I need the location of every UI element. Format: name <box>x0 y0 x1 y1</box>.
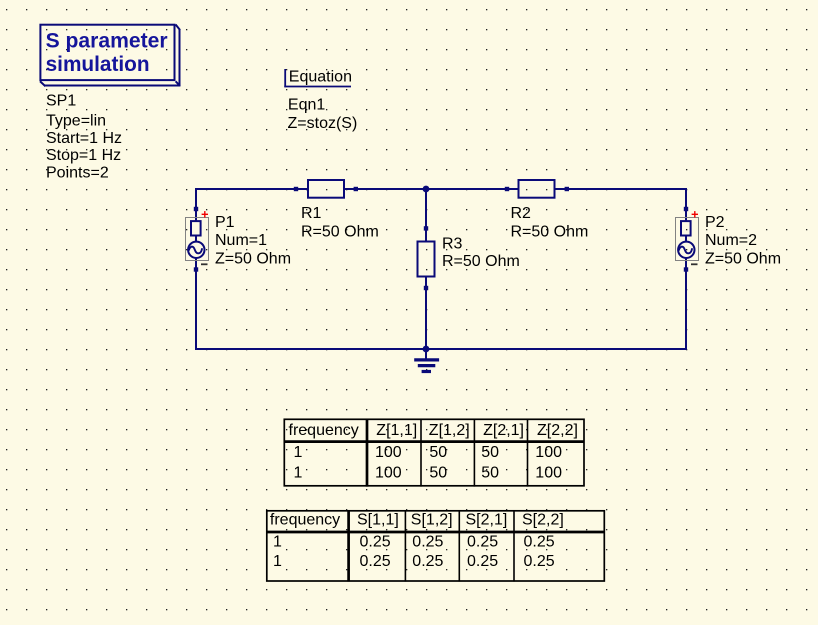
svg-text:0.25: 0.25 <box>467 553 498 570</box>
svg-text:0.25: 0.25 <box>360 553 391 570</box>
svg-text:R=50 Ohm: R=50 Ohm <box>301 223 379 240</box>
svg-text:Z=stoz(S): Z=stoz(S) <box>288 115 358 132</box>
svg-text:Num=1: Num=1 <box>215 232 267 249</box>
svg-text:0.25: 0.25 <box>524 553 555 570</box>
svg-text:Z[1,1]: Z[1,1] <box>376 422 417 439</box>
svg-text:P2: P2 <box>705 214 725 231</box>
svg-text:50: 50 <box>481 465 499 482</box>
svg-text:S[1,1]: S[1,1] <box>357 511 399 528</box>
svg-text:Points=2: Points=2 <box>46 164 109 181</box>
svg-text:0.25: 0.25 <box>467 533 498 550</box>
svg-text:R3: R3 <box>442 235 463 252</box>
svg-text:Z[2,1]: Z[2,1] <box>483 422 524 439</box>
svg-text:simulation: simulation <box>46 53 150 76</box>
svg-text:Eqn1: Eqn1 <box>288 97 325 114</box>
svg-text:100: 100 <box>375 444 402 461</box>
svg-text:1: 1 <box>294 444 303 461</box>
svg-text:frequency: frequency <box>289 422 359 439</box>
svg-text:50: 50 <box>429 444 447 461</box>
svg-text:Z=50 Ohm: Z=50 Ohm <box>215 250 291 267</box>
svg-text:Z[1,2]: Z[1,2] <box>429 422 470 439</box>
svg-text:Z=50 Ohm: Z=50 Ohm <box>705 250 781 267</box>
svg-text:S[1,2]: S[1,2] <box>411 511 453 528</box>
svg-text:Start=1 Hz: Start=1 Hz <box>46 130 122 147</box>
svg-text:0.25: 0.25 <box>412 553 443 570</box>
svg-text:1: 1 <box>273 533 282 550</box>
svg-text:Num=2: Num=2 <box>705 232 757 249</box>
svg-text:S parameter: S parameter <box>46 29 168 52</box>
svg-text:Type=lin: Type=lin <box>46 113 106 130</box>
svg-text:R=50 Ohm: R=50 Ohm <box>442 253 520 270</box>
svg-text:50: 50 <box>429 465 447 482</box>
svg-text:100: 100 <box>535 444 562 461</box>
svg-text:frequency: frequency <box>270 511 340 528</box>
svg-text:1: 1 <box>294 465 303 482</box>
svg-text:S[2,1]: S[2,1] <box>466 511 508 528</box>
svg-text:R1: R1 <box>301 205 322 222</box>
svg-text:0.25: 0.25 <box>524 533 555 550</box>
svg-text:R2: R2 <box>511 205 532 222</box>
svg-text:Equation: Equation <box>289 68 352 85</box>
svg-text:SP1: SP1 <box>46 93 76 110</box>
svg-text:Stop=1 Hz: Stop=1 Hz <box>46 147 121 164</box>
svg-text:Z[2,2]: Z[2,2] <box>537 422 578 439</box>
svg-text:0.25: 0.25 <box>360 533 391 550</box>
svg-text:100: 100 <box>535 465 562 482</box>
svg-text:R=50 Ohm: R=50 Ohm <box>511 223 589 240</box>
svg-text:0.25: 0.25 <box>412 533 443 550</box>
svg-text:50: 50 <box>481 444 499 461</box>
svg-text:100: 100 <box>375 465 402 482</box>
svg-text:S[2,2]: S[2,2] <box>522 511 564 528</box>
svg-text:1: 1 <box>273 553 282 570</box>
svg-text:P1: P1 <box>215 214 235 231</box>
